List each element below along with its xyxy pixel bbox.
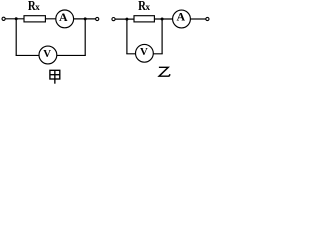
svg-text:x: x — [35, 2, 40, 12]
resistor Rx box — [134, 16, 154, 22]
wire bottom rail — [126, 53, 162, 55]
svg-text:x: x — [145, 2, 150, 12]
svg-text:A: A — [59, 10, 68, 24]
node junction dot 2 — [84, 17, 87, 20]
voltmeter V1 — [39, 46, 57, 64]
wire ammeter to right terminal — [190, 18, 206, 20]
wire right vertical — [161, 19, 163, 54]
resistor Rx box — [24, 16, 45, 22]
wire top rail right circuit — [115, 18, 134, 20]
ammeter A1 — [56, 10, 74, 28]
svg-text:V: V — [43, 48, 51, 60]
wire top rail left circuit — [5, 18, 56, 20]
wire bottom rail — [16, 54, 86, 56]
wire left vertical — [15, 19, 17, 56]
terminal right — [206, 17, 209, 20]
node junction dot 1 — [15, 17, 18, 20]
wire from ammeter to right terminal — [74, 18, 96, 20]
voltmeter V2 — [136, 44, 154, 62]
node junction dot 2 — [161, 18, 164, 21]
label jia (Chinese character) — [50, 70, 60, 83]
node junction dot 1 — [125, 18, 128, 21]
wire left vertical — [126, 19, 128, 54]
svg-text:A: A — [177, 10, 186, 24]
wire right vertical — [84, 19, 86, 56]
svg-text:V: V — [140, 46, 148, 58]
wire resistor to ammeter — [155, 18, 173, 20]
terminal left — [2, 17, 5, 20]
terminal left — [112, 18, 115, 21]
ammeter A2 — [173, 10, 191, 28]
label yi (Chinese character) — [159, 67, 170, 76]
terminal right — [96, 17, 99, 20]
